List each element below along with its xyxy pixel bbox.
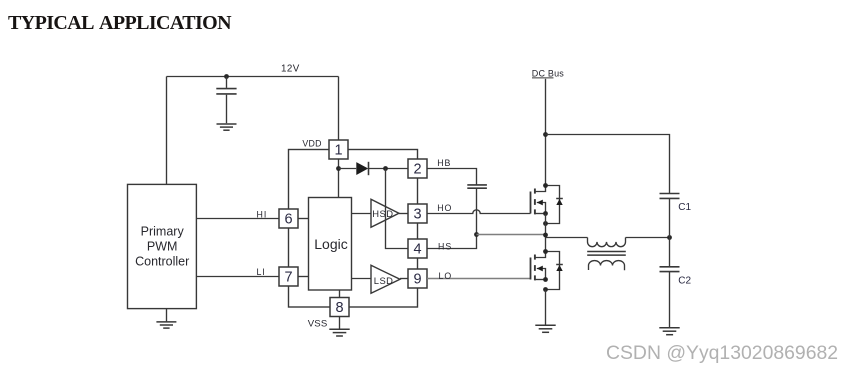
- pin 3: [408, 204, 427, 223]
- wire pin 7 to Logic: [298, 276, 309, 278]
- capacitor C2: [660, 238, 680, 328]
- node junction bootstrap: [383, 166, 388, 171]
- svg-text:Controller: Controller: [135, 255, 189, 269]
- diode Q2 body: [546, 252, 563, 290]
- watermark: [606, 342, 838, 365]
- box Primary PWM Controller: [128, 184, 197, 308]
- svg-text:2: 2: [413, 162, 421, 178]
- wire diode cathode to HB pin 2: [369, 168, 409, 170]
- wire HSD to pin 3: [399, 213, 408, 215]
- svg-text:PWM: PWM: [147, 240, 178, 254]
- capacitor VDD bypass: [216, 77, 236, 124]
- node junction 12V cap: [224, 74, 229, 79]
- svg-text:8: 8: [335, 300, 343, 316]
- op-amp buffer LSD: [371, 265, 400, 293]
- svg-text:VDD: VDD: [302, 138, 321, 148]
- node junction Q2 diode return: [543, 287, 548, 292]
- wire HO with hop over bootstrap line: [427, 210, 531, 214]
- wire 12V rail: [167, 76, 339, 78]
- wire Q1 source to HS node: [545, 214, 547, 252]
- wire HS node gray segment: [477, 234, 546, 236]
- node junction HS bootstrap: [474, 232, 479, 237]
- svg-text:3: 3: [413, 207, 421, 223]
- svg-text:LI: LI: [257, 267, 266, 277]
- wire HB from pin 2: [427, 169, 477, 185]
- op-amp buffer HSD: [371, 199, 399, 227]
- svg-text:Primary: Primary: [141, 225, 185, 239]
- wire Logic to LSD: [352, 278, 372, 280]
- svg-text:DC Bus: DC Bus: [532, 68, 565, 78]
- svg-text:C1: C1: [678, 202, 691, 213]
- capacitor bootstrap: [467, 185, 487, 235]
- node junction Q1 diode return: [543, 221, 548, 226]
- node junction Q2 drain: [543, 249, 548, 254]
- svg-text:9: 9: [413, 272, 421, 288]
- pin 4: [408, 239, 427, 258]
- wire pin 6 to Logic: [298, 218, 309, 220]
- box Logic: [309, 198, 352, 291]
- transformer T1 primary: [588, 238, 626, 247]
- heading TYPICAL APPLICATION: [8, 12, 231, 35]
- svg-text:1: 1: [334, 143, 342, 159]
- svg-text:7: 7: [284, 270, 292, 286]
- wire transformer to output node: [626, 237, 670, 239]
- svg-text:12V: 12V: [281, 64, 300, 75]
- node junction Q1 source: [543, 211, 548, 216]
- svg-text:LSD: LSD: [374, 275, 394, 286]
- wire LI: [196, 276, 279, 278]
- node junction Q2 source: [543, 277, 548, 282]
- diode bootstrap: [356, 162, 368, 175]
- transformer T1 core: [587, 252, 626, 256]
- wire Logic to VSS pin 8: [339, 290, 341, 298]
- wire 12V rail to VDD pin 1: [338, 77, 340, 141]
- wire Q2 source to ground: [545, 290, 547, 325]
- ground (C2): [659, 328, 679, 335]
- wire VDD pin 1 to logic / diode node: [338, 159, 340, 198]
- wire HS from pin 4: [427, 235, 477, 249]
- svg-text:HI: HI: [257, 209, 268, 219]
- pin 7: [279, 267, 298, 286]
- svg-text:VSS: VSS: [308, 319, 328, 330]
- svg-text:C2: C2: [678, 276, 691, 287]
- svg-text:Logic: Logic: [314, 236, 347, 252]
- wire DC bus underline: [532, 77, 554, 79]
- node junction HS switch node: [543, 233, 548, 238]
- svg-text:4: 4: [413, 242, 421, 258]
- wire 12V rail to PWM controller: [166, 77, 168, 185]
- pin 8: [330, 298, 349, 317]
- svg-text:HB: HB: [437, 158, 451, 168]
- svg-text:HS: HS: [438, 241, 452, 251]
- wire bootstrap rail through HSD to HS: [386, 169, 409, 249]
- wire VSS pin 8 to ground: [339, 317, 341, 329]
- svg-text:HO: HO: [437, 203, 452, 213]
- capacitor C1: [660, 194, 680, 238]
- wire Logic to HSD: [352, 213, 372, 215]
- wire LSD to pin 9: [400, 278, 408, 280]
- wire DC bus branch to C1: [546, 135, 670, 194]
- node junction output: [667, 235, 672, 240]
- node junction Q1 drain: [543, 183, 548, 188]
- wire diode anode: [339, 168, 357, 170]
- wire PWM controller to ground: [166, 309, 168, 322]
- transformer T1 secondary: [589, 261, 625, 271]
- wire HS node to transformer: [546, 237, 588, 239]
- pin 9: [408, 269, 427, 288]
- node junction diode anode: [336, 166, 341, 171]
- svg-text:HSD: HSD: [372, 208, 393, 219]
- ground (12V cap): [217, 124, 237, 130]
- ground (Q2 source): [535, 325, 555, 332]
- pin 6: [279, 209, 298, 228]
- IC boundary outline: [289, 150, 418, 308]
- ground (VSS): [329, 329, 349, 336]
- node junction DC bus branch: [543, 132, 548, 137]
- transistor Q2 low-side MOSFET: [531, 252, 546, 281]
- diode Q1 body: [546, 186, 563, 224]
- wire HI: [196, 218, 279, 220]
- wire DC bus vertical: [545, 79, 547, 186]
- transistor Q1 high-side MOSFET: [531, 186, 546, 215]
- svg-text:6: 6: [284, 212, 292, 228]
- ground (PWM controller): [156, 322, 176, 328]
- pin 2: [408, 159, 427, 178]
- wire LO gray: [427, 278, 531, 280]
- svg-text:LO: LO: [439, 271, 453, 281]
- pin 1: [329, 140, 348, 159]
